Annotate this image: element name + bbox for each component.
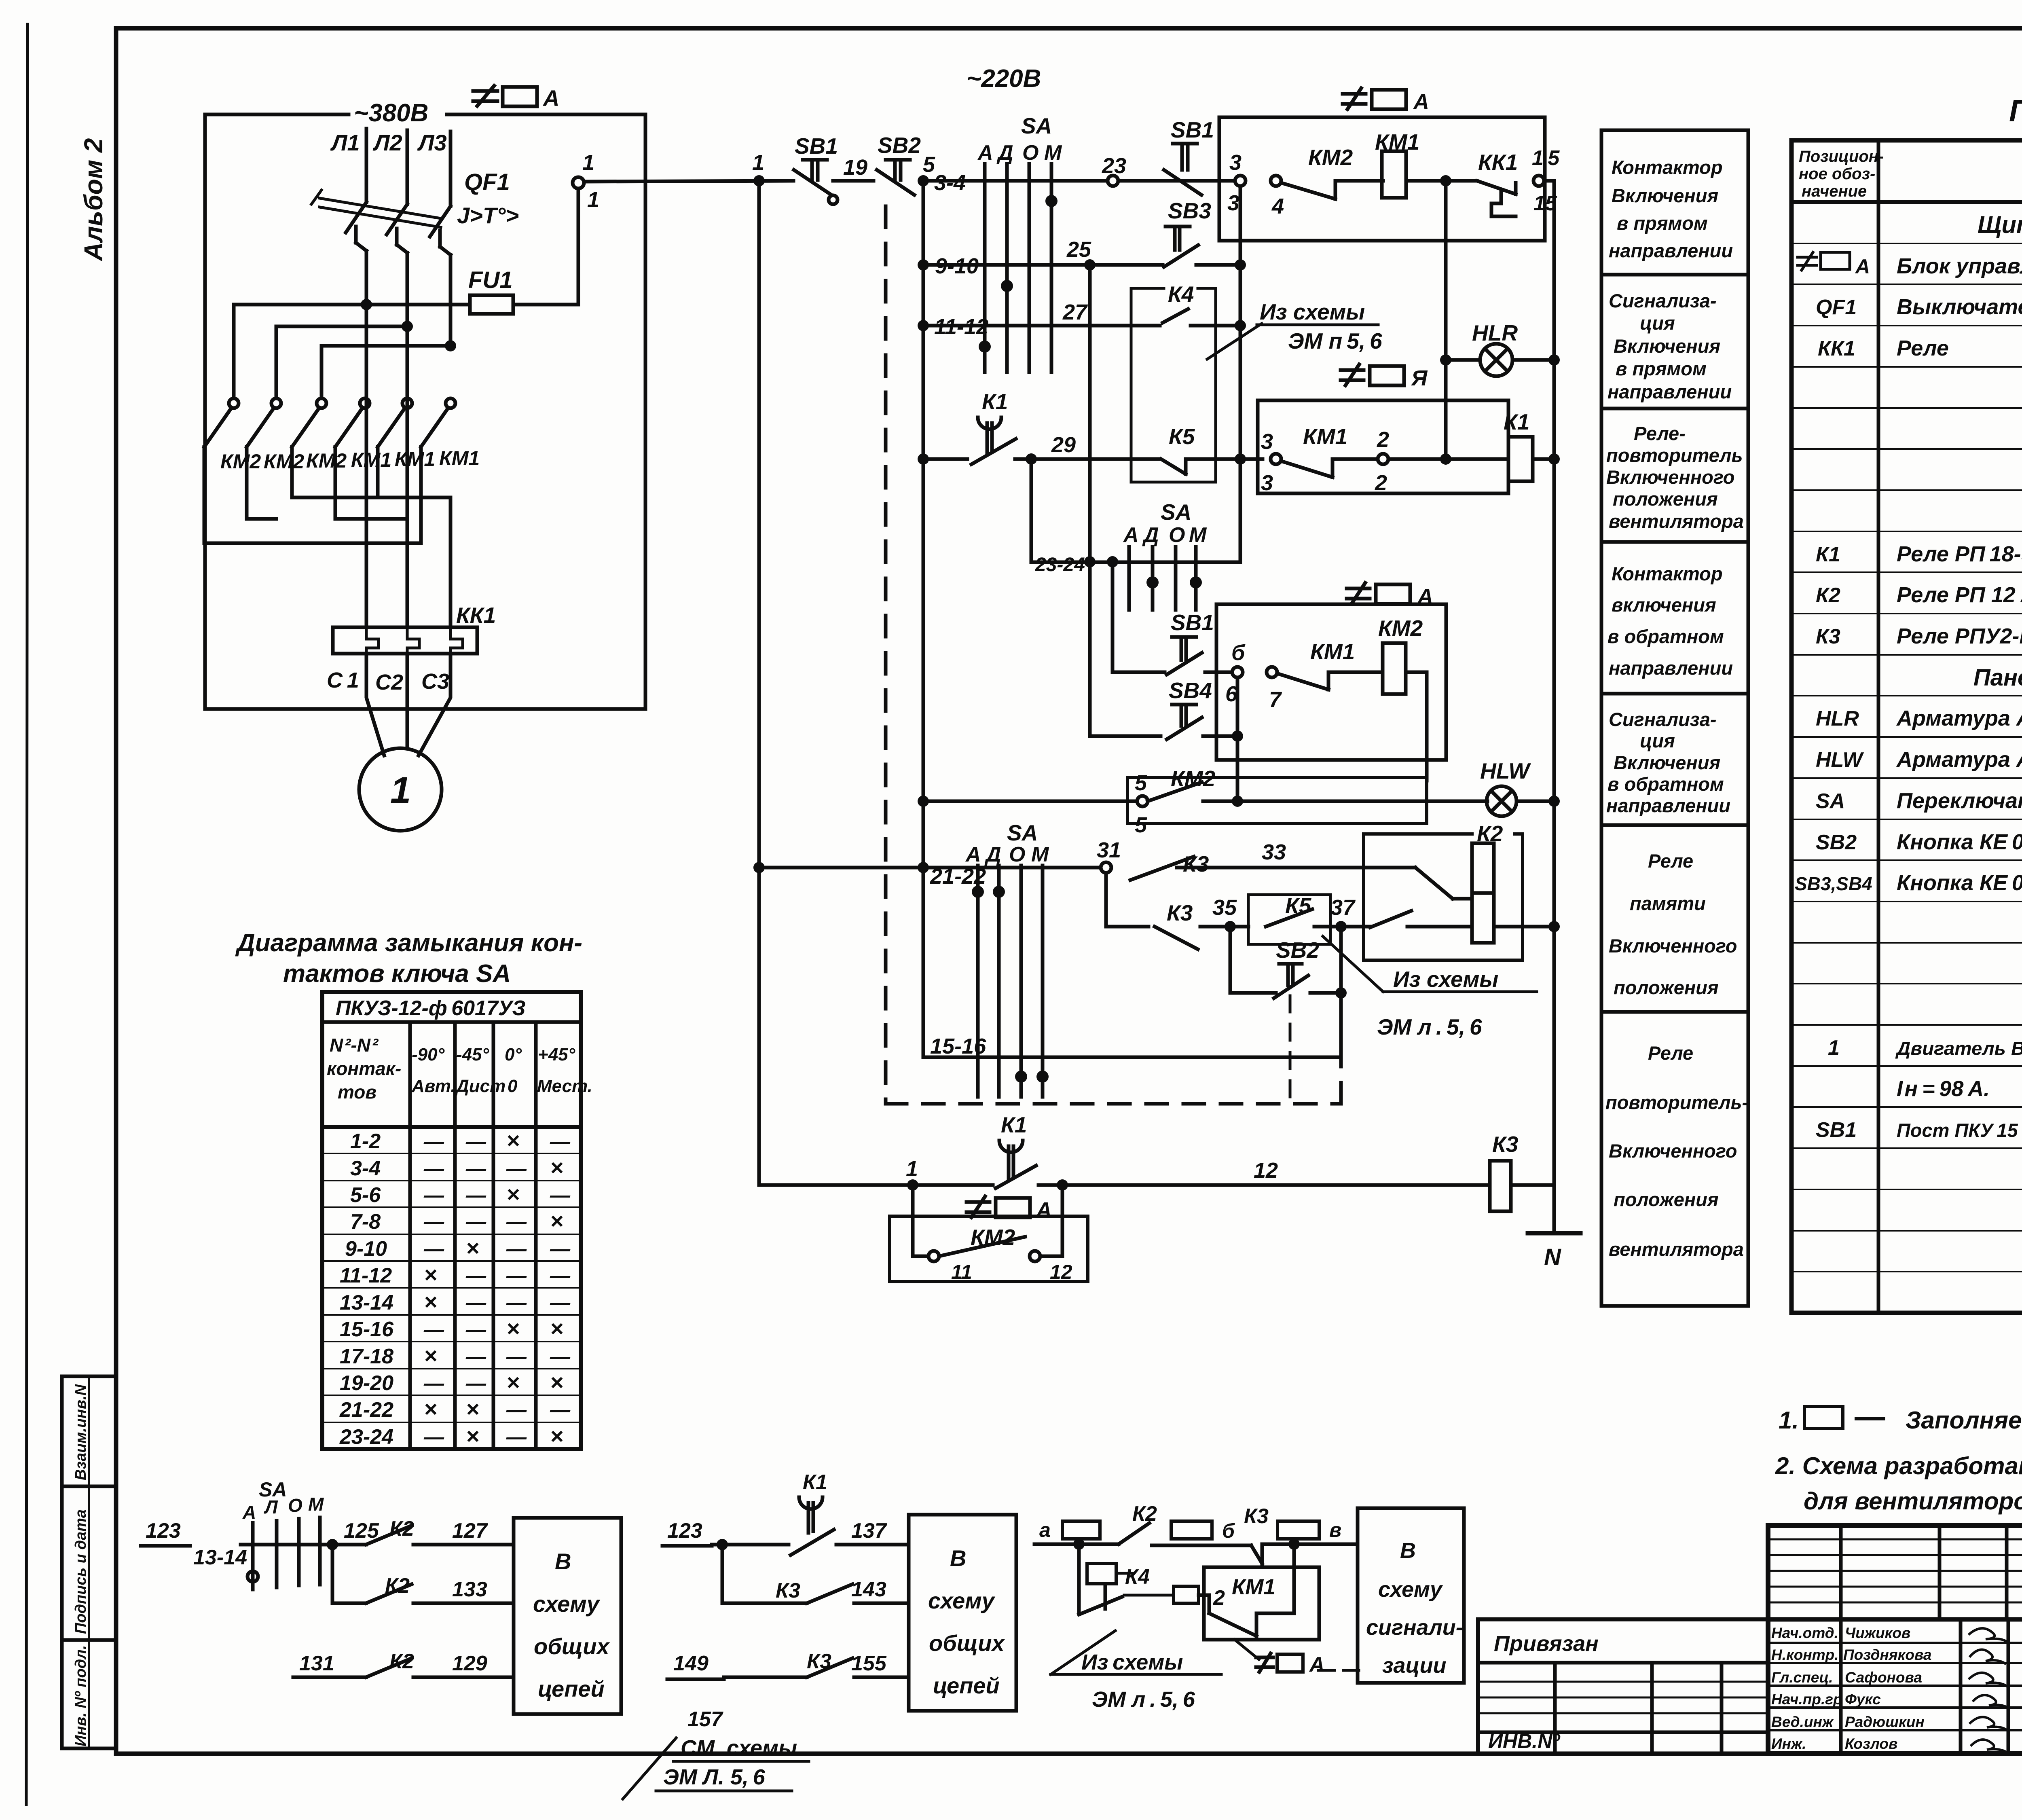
FRAMETEXT <box>72 138 108 1746</box>
POWER <box>204 85 793 831</box>
contact mark SA 3-4 <box>1045 195 1058 207</box>
wire: rung 3-4 <box>923 179 1235 183</box>
wire: bottom rung K1 repeat <box>759 1183 993 1187</box>
junction node 35 <box>1225 921 1236 932</box>
svg-text:общих: общих <box>534 1634 610 1659</box>
svg-text:—: — <box>465 1130 486 1153</box>
wire: rung KM2 aux HLW <box>923 800 1137 803</box>
svg-text:общих: общих <box>929 1630 1005 1656</box>
svg-text:КМ1: КМ1 <box>1375 129 1419 154</box>
svg-text:Двигатель ВАСО-14 -16-32У1 , И: Двигатель ВАСО-14 -16-32У1 , И~380 В,30 … <box>1895 1038 2022 1059</box>
svg-text:1: 1 <box>1828 1036 1840 1060</box>
wire: KM2 feed jog from L2 <box>276 326 407 398</box>
SIGNALS <box>752 65 1580 1283</box>
svg-text:ЭМ п 5, 6: ЭМ п 5, 6 <box>1288 328 1382 353</box>
wire: KM2 pole1 link <box>204 447 421 543</box>
svg-text:вентилятора: вентилятора <box>1609 1238 1744 1260</box>
svg-text:3: 3 <box>1261 430 1273 454</box>
wire: phase L2 drop <box>406 130 409 204</box>
svg-text:2: 2 <box>1375 471 1387 495</box>
svg-text:×: × <box>550 1316 563 1341</box>
svg-text:Л3: Л3 <box>417 130 447 155</box>
svg-text:1-2: 1-2 <box>350 1130 381 1153</box>
svg-text:Кнопка КЕ 011 УЗ, исп. 2.: Кнопка КЕ 011 УЗ, исп. 2. <box>1897 830 2022 854</box>
relay contact K1 timed <box>971 389 1016 464</box>
svg-text:15-16: 15-16 <box>930 1034 986 1058</box>
svg-text:—: — <box>506 1157 527 1180</box>
thermal contact KK1 <box>1477 146 1560 216</box>
pushbutton SB1 reverse <box>1167 610 1214 675</box>
svg-text:SВ2: SВ2 <box>1276 938 1319 963</box>
wire: to 137 <box>836 1543 909 1547</box>
label: signature names <box>1771 1625 1931 1752</box>
pushbutton SB3 <box>1164 198 1211 267</box>
svg-text:Н.контр.: Н.контр. <box>1771 1646 1838 1663</box>
svg-text:Включенного: Включенного <box>1606 466 1735 488</box>
svg-text:SВ1: SВ1 <box>1171 117 1214 142</box>
svg-text:в прямом: в прямом <box>1617 212 1708 234</box>
wire: rung 35 from node31 <box>1106 873 1148 927</box>
wire: fragment2 rung1 <box>662 1544 712 1548</box>
svg-text:C2: C2 <box>375 670 403 694</box>
svg-text:цепей: цепей <box>933 1673 1000 1698</box>
svg-text:13-14: 13-14 <box>193 1546 247 1569</box>
wire: right neutral bus <box>1552 181 1556 1233</box>
svg-text:—: — <box>550 1238 571 1260</box>
svg-text:Включенного: Включенного <box>1609 935 1737 957</box>
NOTES <box>1775 1407 2022 1515</box>
table: SA contact diagram title <box>235 929 582 988</box>
svg-text:повторитель-: повторитель- <box>1605 1092 1748 1113</box>
svg-text:Д: Д <box>1142 523 1159 547</box>
svg-text:тов: тов <box>338 1081 376 1103</box>
lamp HLW <box>1480 758 1531 816</box>
node C3 <box>421 669 449 694</box>
svg-text:3: 3 <box>1227 191 1239 215</box>
svg-text:125: 125 <box>344 1519 379 1543</box>
svg-text:—: — <box>506 1264 527 1287</box>
svg-text:133: 133 <box>452 1578 487 1601</box>
svg-text:11-12: 11-12 <box>340 1264 392 1287</box>
svg-text:К3: К3 <box>776 1579 800 1602</box>
enclosure: K5 remote box lower <box>1248 895 1330 944</box>
svg-text:3: 3 <box>1261 471 1273 495</box>
svg-text:33: 33 <box>1262 840 1286 864</box>
svg-text:схему: схему <box>533 1591 601 1617</box>
wire: HLW to bus <box>1516 800 1554 803</box>
svg-text:А: А <box>1417 584 1433 609</box>
wire: right drop into box <box>1040 1185 1062 1256</box>
TITLEBLOCK <box>1478 1526 2022 1797</box>
node a terminal fragment3 <box>1039 1519 1051 1541</box>
motor 1 <box>359 748 442 831</box>
node terminal mid fragment3 <box>1124 1594 1174 1597</box>
relay K4 coil fragment3 <box>1087 1564 1116 1584</box>
svg-text:5: 5 <box>1135 813 1147 837</box>
contact KM2 interlock <box>939 1225 1025 1256</box>
svg-text:КМ2: КМ2 <box>306 449 347 472</box>
svg-text:Из схемы: Из схемы <box>1081 1650 1183 1674</box>
note 2 line 2 <box>1804 1488 2022 1515</box>
label: forward signal caption <box>1607 290 1732 402</box>
svg-text:—: — <box>423 1130 444 1153</box>
svg-text:Реле РПУ2-М9624ОУЗ, И~ 220 В: Реле РПУ2-М9624ОУЗ, И~ 220 В <box>1897 624 2022 648</box>
svg-text:Сафонова: Сафонова <box>1845 1669 1922 1686</box>
junction SB2 out <box>1335 987 1347 999</box>
junction dot node 5 <box>918 175 929 186</box>
svg-text:Реле РП 12 УХЛ4 , Н~220 В.: Реле РП 12 УХЛ4 , Н~220 В. <box>1897 583 2022 607</box>
enclosure: KM2 aux box <box>1127 777 1427 823</box>
svg-text:К1: К1 <box>982 389 1008 414</box>
svg-text:-90°: -90° <box>412 1045 445 1064</box>
relay contact K1 fragment2 <box>791 1471 834 1555</box>
svg-text:КМ2: КМ2 <box>1171 766 1216 791</box>
svg-text:Включения: Включения <box>1614 752 1720 773</box>
wire: to node 35 <box>1200 925 1248 929</box>
node label 23 <box>1102 154 1126 178</box>
svg-text:0°: 0° <box>505 1045 522 1064</box>
svg-text:К3: К3 <box>1492 1132 1518 1157</box>
wire: KM2 coil return <box>1406 672 1427 781</box>
label: repeater relay caption <box>1606 423 1744 532</box>
terminal 31 <box>1101 862 1111 873</box>
wire: a rung <box>1034 1543 1119 1546</box>
callout: iz shemy EM l5,6 lower <box>1323 936 1537 1039</box>
svg-text:3: 3 <box>1229 150 1242 175</box>
svg-text:положения: положения <box>1614 977 1719 998</box>
svg-text:-45°: -45° <box>456 1045 489 1064</box>
wire: phase stub C2 <box>406 519 409 627</box>
svg-text:Инж.: Инж. <box>1771 1735 1806 1752</box>
svg-text:SВ1: SВ1 <box>795 133 838 159</box>
svg-text:—: — <box>550 1264 571 1287</box>
node L2 <box>372 130 402 155</box>
contactor contact KM1 pole1 <box>335 398 370 447</box>
wire: fuse to riser <box>513 303 578 307</box>
wire: main bus to fuse <box>234 303 470 307</box>
svg-text:37: 37 <box>1330 895 1356 920</box>
svg-text:О: О <box>1009 843 1025 866</box>
svg-text:—: — <box>423 1372 444 1395</box>
svg-text:2: 2 <box>1377 427 1389 452</box>
svg-text:вентилятора: вентилятора <box>1609 510 1744 532</box>
relay contact K3 lower <box>1155 900 1198 949</box>
svg-text:Включенного: Включенного <box>1609 1140 1737 1162</box>
node L3 <box>417 130 447 155</box>
node label 3-4 <box>934 171 966 195</box>
block symbol A (unit designation) <box>473 85 559 111</box>
svg-text:×: × <box>424 1343 437 1368</box>
svg-text:Дист: Дист <box>455 1076 505 1096</box>
svg-text:×: × <box>424 1396 437 1422</box>
table row: SB2 entry <box>1816 830 2022 854</box>
table: element list outer frame <box>1791 140 2022 1313</box>
svg-text:КМ1: КМ1 <box>351 449 391 471</box>
svg-text:А: А <box>977 141 993 165</box>
wire: SB4 to node <box>1203 734 1237 738</box>
table row: K2 entry <box>1816 583 2022 607</box>
svg-text:FU1: FU1 <box>468 267 513 293</box>
svg-text:Позицион-: Позицион- <box>1799 148 1884 165</box>
svg-text:КМ1: КМ1 <box>1232 1575 1275 1599</box>
svg-text:В: В <box>950 1545 966 1571</box>
svg-text:—: — <box>423 1157 444 1180</box>
svg-text:×: × <box>466 1396 479 1422</box>
svg-text:б: б <box>1231 641 1246 665</box>
svg-text:К2: К2 <box>1477 821 1503 846</box>
svg-text:SВ3,SВ4: SВ3,SВ4 <box>1795 873 1872 894</box>
wire: rung 21-22 <box>759 866 1101 870</box>
svg-text:КМ2: КМ2 <box>220 450 261 473</box>
svg-text:К3: К3 <box>1816 625 1840 648</box>
terminal 2 seal <box>1378 454 1388 464</box>
svg-text:0: 0 <box>508 1076 518 1096</box>
svg-text:1 5: 1 5 <box>1532 146 1560 170</box>
lamp HLR <box>1472 320 1518 376</box>
svg-text:13-14: 13-14 <box>340 1291 393 1314</box>
wire: control bus riser (after SB2) <box>922 181 925 1057</box>
svg-text:А: А <box>965 843 981 866</box>
svg-text:К3: К3 <box>1244 1505 1269 1528</box>
junction node 37 <box>1335 921 1347 932</box>
coil K1 <box>1508 437 1533 481</box>
svg-text:О: О <box>1022 141 1038 165</box>
svg-text:SА: SА <box>1816 789 1845 813</box>
svg-text:7-8: 7-8 <box>350 1210 381 1234</box>
block symbol A above forward block <box>1343 88 1429 114</box>
svg-text:Позднякова: Позднякова <box>1843 1646 1931 1663</box>
svg-text:А: А <box>1123 523 1139 547</box>
contact KM1 aux NC reverse <box>1277 639 1355 690</box>
svg-text:Выключатель АЕ 2066-100УЗБ, Iр: Выключатель АЕ 2066-100УЗБ, Iр = 125А. <box>1897 295 2022 319</box>
relay contact K3 fragment2 <box>776 1579 852 1603</box>
table: element list header text <box>1799 148 2022 200</box>
svg-text:×: × <box>466 1235 479 1261</box>
node v terminal fragment3 <box>1277 1521 1319 1539</box>
table: SA diagram outer frame <box>322 992 581 1449</box>
svg-text:17-18: 17-18 <box>340 1345 393 1368</box>
svg-text:М: М <box>1044 141 1062 165</box>
callout: iz shemy fragment3 <box>1051 1631 1221 1712</box>
svg-text:~380В: ~380В <box>354 99 428 127</box>
svg-text:К3: К3 <box>1167 900 1193 925</box>
svg-text:1.: 1. <box>1779 1407 1799 1434</box>
junction on L1 at bus <box>361 299 372 310</box>
svg-text:Перечень элементов.: Перечень элементов. <box>2009 94 2022 128</box>
wire: SB2 to node37 <box>1310 932 1341 993</box>
wire: HLR branch <box>1444 181 1448 459</box>
wire: branch to rung 23-24 <box>1031 459 1240 562</box>
table: title block upper grid <box>1768 1526 2022 1754</box>
svg-text:—: — <box>423 1426 444 1448</box>
wire: fragment2 branch <box>722 1545 807 1603</box>
block symbol A above reverse block <box>1347 583 1433 609</box>
relay contact K4 <box>1163 281 1194 323</box>
svg-text:QF1: QF1 <box>464 169 510 195</box>
junction rung9-10 right <box>1235 259 1246 271</box>
terminal 5 KM2 <box>1137 796 1148 806</box>
svg-text:Чижиков: Чижиков <box>1845 1625 1910 1641</box>
svg-text:×: × <box>550 1369 563 1395</box>
svg-text:К4: К4 <box>1168 281 1194 307</box>
svg-text:5: 5 <box>1135 771 1147 795</box>
wire: fragment1 rung1 <box>241 1543 366 1547</box>
svg-text:123: 123 <box>146 1519 181 1543</box>
node 25 <box>1084 259 1096 271</box>
svg-text:Панель управления и сигнализац: Панель управления и сигнализации. <box>1973 665 2022 691</box>
enclosure: dashed local panel boundary <box>886 206 1341 1104</box>
svg-text:131: 131 <box>299 1652 334 1675</box>
svg-text:4: 4 <box>1271 194 1284 218</box>
svg-text:в обратном: в обратном <box>1607 626 1724 647</box>
svg-text:HLW: HLW <box>1816 748 1864 772</box>
wire: KM2 feed from bus <box>232 305 236 398</box>
label: forward contactor caption <box>1609 157 1733 261</box>
svg-text:в прямом: в прямом <box>1616 358 1707 379</box>
svg-text:направлении: направлении <box>1606 795 1730 816</box>
svg-text:3-4: 3-4 <box>350 1157 381 1180</box>
svg-text:—: — <box>506 1345 527 1368</box>
wire: K2 to bus <box>1494 925 1554 929</box>
svg-text:2: 2 <box>1213 1586 1225 1610</box>
svg-text:в обратном: в обратном <box>1607 773 1724 795</box>
svg-text:КМ2: КМ2 <box>971 1225 1015 1250</box>
contact K2 lower <box>1370 911 1411 927</box>
svg-text:—: — <box>550 1130 571 1153</box>
svg-text:SА: SА <box>1161 499 1191 525</box>
svg-text:К1: К1 <box>1816 543 1840 566</box>
svg-text:К5: К5 <box>1169 424 1195 449</box>
contactor contact KM1 pole3 <box>421 398 455 447</box>
svg-text:КК1: КК1 <box>1478 150 1518 175</box>
svg-text:C3: C3 <box>421 669 449 694</box>
svg-text:Реле: Реле <box>1648 850 1693 872</box>
svg-text:157: 157 <box>687 1708 723 1731</box>
table row: SB3 SB4 entry <box>1795 871 2022 895</box>
svg-text:HLW: HLW <box>1480 758 1531 783</box>
svg-text:7: 7 <box>1269 688 1282 712</box>
table row: motor current entry <box>1897 1077 2022 1101</box>
terminal b <box>1232 667 1243 677</box>
svg-text:А: А <box>1035 1198 1052 1222</box>
svg-text:—: — <box>465 1211 486 1233</box>
node 1 terminal <box>573 177 584 188</box>
contact mark SA 15-16 <box>1015 1071 1027 1083</box>
wire: drop from a node <box>1077 1544 1081 1612</box>
table row: section control signal panel <box>1973 665 2022 691</box>
svg-text:ЭМ л . 5, 6: ЭМ л . 5, 6 <box>1092 1687 1195 1712</box>
coil K3 <box>1490 1161 1511 1211</box>
wire: seal out to K1 coil <box>1388 457 1508 461</box>
relay contact K4 fragment3 <box>1079 1597 1122 1615</box>
enclosure: forward contactor block A <box>1219 117 1545 241</box>
svg-text:для вентиляторов Nº: для вентиляторов Nº <box>1804 1488 2022 1515</box>
relay contact K2 fragment3 <box>1119 1502 1157 1544</box>
svg-text:—: — <box>506 1291 527 1314</box>
svg-text:ное обоз-: ное обоз- <box>1799 165 1875 183</box>
wire: phase stub C1 <box>365 398 368 627</box>
svg-text:КМ1: КМ1 <box>439 447 480 470</box>
svg-text:ЭМ л . 5, 6: ЭМ л . 5, 6 <box>1377 1014 1482 1039</box>
wire: left drop into box <box>913 1185 929 1256</box>
svg-text:начение: начение <box>1802 182 1867 200</box>
svg-text:В: В <box>1400 1539 1416 1563</box>
note 2 line 1 <box>1775 1452 2022 1479</box>
svg-text:М: М <box>1189 523 1207 547</box>
contact mark SA 9-10 <box>1001 280 1013 292</box>
table: element list row grid <box>1791 243 2022 1272</box>
svg-text:Козлов: Козлов <box>1845 1735 1897 1752</box>
svg-text:5: 5 <box>923 152 935 177</box>
table: SA diagram header <box>327 997 592 1103</box>
svg-text:×: × <box>506 1181 520 1207</box>
svg-text:Л2: Л2 <box>372 130 402 155</box>
wire: fragment1 branch down <box>331 1545 334 1603</box>
svg-text:Инв. Nº подл.: Инв. Nº подл. <box>72 1645 89 1746</box>
signature squiggles <box>1969 1628 2008 1752</box>
wire: KM2 feed jog from L3 <box>321 346 451 398</box>
svg-text:Арматура АС 120 11У2, И~220 В.: Арматура АС 120 11У2, И~220 В. <box>1896 706 2022 730</box>
svg-text:А: А <box>542 85 559 111</box>
svg-text:КК1: КК1 <box>1818 337 1855 360</box>
svg-text:КМ1: КМ1 <box>1310 639 1355 664</box>
wire: fragment2 rung3 <box>667 1650 909 1731</box>
svg-text:ПКУЗ-12-ф 6017УЗ: ПКУЗ-12-ф 6017УЗ <box>336 997 526 1020</box>
node b terminal fragment3 <box>1171 1521 1212 1539</box>
svg-text:Сигнализа-: Сигнализа- <box>1609 709 1717 730</box>
svg-text:SВ4: SВ4 <box>1169 678 1212 703</box>
svg-text:—: — <box>550 1291 571 1314</box>
node: function label column boxes <box>1601 130 1748 1306</box>
table row: SB1 entry <box>1816 1118 2022 1142</box>
svg-text:направлении: направлении <box>1609 657 1733 679</box>
svg-text:О: О <box>288 1495 302 1516</box>
svg-text:А: А <box>1855 255 1870 278</box>
svg-text:Гл.спец.: Гл.спец. <box>1771 1669 1833 1686</box>
svg-text:О: О <box>1169 523 1185 547</box>
svg-text:—: — <box>506 1211 527 1233</box>
svg-text:12: 12 <box>1254 1158 1278 1183</box>
pushbutton SB4 <box>1167 678 1212 739</box>
svg-text:Д: Д <box>996 141 1013 165</box>
wire: rung 9-10 <box>923 263 1163 267</box>
wire: K3 coil to bus <box>1511 1183 1554 1187</box>
svg-text:КМ2: КМ2 <box>264 450 304 473</box>
wire: phase L3 drop <box>449 131 453 206</box>
wire: to KM2 coil <box>1328 671 1383 674</box>
svg-text:М: М <box>308 1494 324 1515</box>
wire: motor lead C1 <box>366 654 384 756</box>
svg-text:29: 29 <box>1051 433 1076 457</box>
svg-text:27: 27 <box>1062 300 1088 324</box>
svg-text:11-12: 11-12 <box>934 315 988 339</box>
svg-text:149: 149 <box>673 1652 709 1675</box>
svg-text:N: N <box>1544 1244 1561 1270</box>
svg-text:К5: К5 <box>1285 893 1312 918</box>
svg-text:11: 11 <box>951 1261 972 1283</box>
svg-text:J>T°>: J>T°> <box>457 203 519 228</box>
coil K2 polarized <box>1472 821 1503 943</box>
svg-text:155: 155 <box>851 1652 887 1675</box>
net label ~220V <box>967 65 1041 93</box>
svg-text:Диаграмма замыкания кон-: Диаграмма замыкания кон- <box>235 929 582 957</box>
node 29 junction <box>1026 453 1037 465</box>
svg-text:Реле РП 18-91-УХЛ4, И~220 В.В: Реле РП 18-91-УХЛ4, И~220 В.В. 6. 0,4…1,… <box>1897 542 2022 566</box>
wire: vertical feedback line from terminal 3 <box>1239 186 1242 562</box>
svg-text:М: М <box>1031 843 1049 866</box>
svg-text:ция: ция <box>1640 730 1675 751</box>
svg-text:К3: К3 <box>1183 851 1209 876</box>
